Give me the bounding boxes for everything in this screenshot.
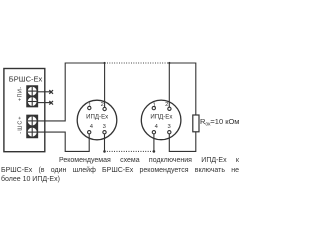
wire ШС- bottom rail [37,132,90,151]
top rail solid right + down to resistor [169,63,196,115]
resistor Rок body [193,115,199,132]
detector2 pin3 to resistor bottom [169,132,196,152]
svg-text:1: 1 [153,102,156,108]
drop to detector1 pin2 [104,63,106,107]
detector2 pin contacts [152,106,171,133]
svg-text:2: 2 [165,102,168,108]
svg-text:2: 2 [101,102,104,108]
svg-text:ИПД-Ех: ИПД-Ех [86,114,108,121]
svg-text:ИПД-Ех: ИПД-Ех [150,114,172,121]
detector1 pin3 down [104,134,106,152]
svg-text:3: 3 [167,124,170,130]
top rail dotted segment [105,62,170,64]
svg-text:+ПИ-: +ПИ- [18,87,24,102]
terminal block ШС [27,115,38,138]
wire ПИ stub 2 [37,102,52,104]
smoke detector circle 1 [77,100,117,140]
pin numbers detector1 [88,102,106,130]
wire ШС+ to top rail [37,63,105,121]
svg-text:4: 4 [90,124,94,130]
svg-text:1: 1 [88,102,91,108]
svg-text:4: 4 [155,124,159,130]
not-connected mark x2 [49,101,53,105]
detector2 pin4 drop [153,134,155,152]
junction dots [103,62,170,153]
smoke detector circle 2 [141,100,181,140]
svg-text:БРШС-Ех: БРШС-Ех [9,74,43,83]
drop to detector2 pin2 [168,63,170,107]
detector1 pin contacts [88,106,107,134]
svg-text:-ШС+: -ШС+ [18,115,24,133]
pin numbers detector2 [153,102,171,130]
terminal block ПИ [27,86,38,107]
svg-text:Rок=10 кОм: Rок=10 кОм [200,117,239,128]
not-connected mark x1 [49,90,53,94]
wire ПИ stub 1 [37,91,52,93]
bottom dotted segment [105,150,154,152]
БРШС-Ех box [4,69,45,152]
svg-text:3: 3 [103,124,106,130]
figure caption [1,156,239,184]
